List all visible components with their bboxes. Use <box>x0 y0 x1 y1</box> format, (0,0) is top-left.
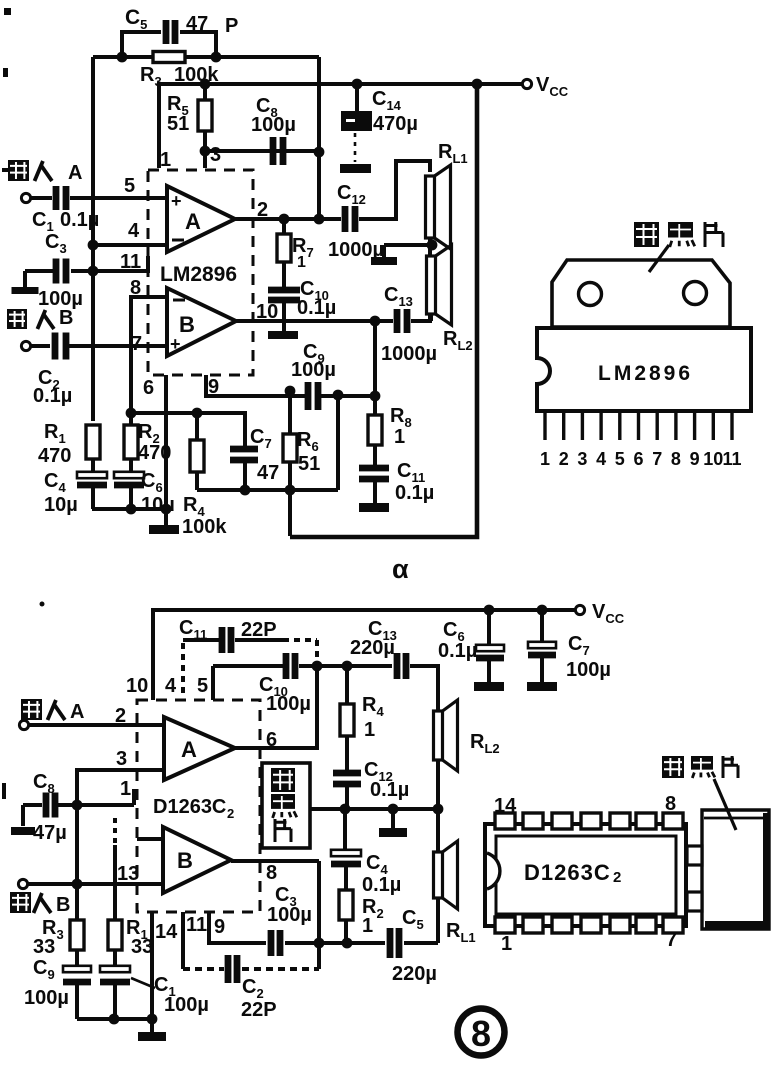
svg-text:8: 8 <box>471 1013 491 1054</box>
svg-text:A: A <box>68 162 82 184</box>
svg-text:P: P <box>225 15 238 37</box>
svg-text:51: 51 <box>298 453 320 475</box>
svg-text:3: 3 <box>577 449 587 469</box>
svg-text:5: 5 <box>124 175 135 197</box>
svg-text:47: 47 <box>257 462 279 484</box>
svg-text:7: 7 <box>652 449 662 469</box>
svg-text:100µ: 100µ <box>24 987 69 1009</box>
svg-text:α: α <box>392 554 409 584</box>
svg-text:4: 4 <box>596 449 606 469</box>
svg-text:11: 11 <box>722 449 741 469</box>
svg-text:4: 4 <box>165 675 177 697</box>
svg-text:1: 1 <box>362 915 373 937</box>
svg-text:LM2896: LM2896 <box>598 362 693 385</box>
svg-text:1000µ: 1000µ <box>381 343 437 365</box>
svg-text:2: 2 <box>559 449 569 469</box>
svg-text:47: 47 <box>186 13 208 35</box>
svg-text:100µ: 100µ <box>291 359 336 381</box>
svg-text:LM2896: LM2896 <box>160 263 237 286</box>
svg-text:10: 10 <box>703 449 723 469</box>
svg-text:B: B <box>177 848 193 873</box>
svg-text:14: 14 <box>155 921 178 943</box>
svg-text:D1263C: D1263C <box>524 860 611 885</box>
svg-text:22P: 22P <box>241 999 277 1021</box>
svg-text:100µ: 100µ <box>267 904 312 926</box>
svg-text:0.1µ: 0.1µ <box>370 779 409 801</box>
svg-text:0.1µ: 0.1µ <box>362 874 401 896</box>
svg-text:A: A <box>181 737 197 762</box>
svg-text:+: + <box>170 334 181 354</box>
svg-text:470µ: 470µ <box>373 113 418 135</box>
svg-text:7: 7 <box>666 929 677 951</box>
svg-text:3: 3 <box>116 748 127 770</box>
svg-text:220µ: 220µ <box>350 637 395 659</box>
svg-text:2: 2 <box>115 705 126 727</box>
svg-text:9: 9 <box>214 916 225 938</box>
svg-text:A: A <box>185 209 201 234</box>
svg-text:5: 5 <box>615 449 625 469</box>
svg-text:1: 1 <box>364 719 375 741</box>
svg-text:6: 6 <box>143 377 154 399</box>
svg-text:33: 33 <box>131 936 153 958</box>
svg-text:33: 33 <box>33 936 55 958</box>
svg-text:11: 11 <box>186 914 207 936</box>
svg-text:22P: 22P <box>241 619 277 641</box>
svg-text:1: 1 <box>540 449 550 469</box>
svg-text:B: B <box>179 312 195 337</box>
svg-text:8: 8 <box>665 793 676 815</box>
svg-text:1: 1 <box>501 933 512 955</box>
svg-text:100µ: 100µ <box>566 659 611 681</box>
svg-text:1: 1 <box>120 778 131 800</box>
svg-text:0.1µ: 0.1µ <box>297 297 336 319</box>
svg-text:1: 1 <box>297 254 306 271</box>
svg-text:+: + <box>171 191 182 211</box>
svg-text:11: 11 <box>120 251 141 273</box>
svg-text:2: 2 <box>613 869 621 886</box>
svg-text:7: 7 <box>131 333 142 355</box>
svg-text:8: 8 <box>130 277 141 299</box>
svg-text:100µ: 100µ <box>251 114 296 136</box>
svg-text:1: 1 <box>394 426 405 448</box>
svg-text:B: B <box>59 307 73 329</box>
svg-text:100µ: 100µ <box>266 693 311 715</box>
svg-text:0.1µ: 0.1µ <box>395 482 434 504</box>
svg-text:47µ: 47µ <box>33 822 67 844</box>
svg-text:5: 5 <box>197 675 208 697</box>
svg-text:6: 6 <box>633 449 643 469</box>
svg-text:0.1µ: 0.1µ <box>33 385 72 407</box>
svg-text:9: 9 <box>690 449 700 469</box>
svg-text:A: A <box>70 701 84 723</box>
svg-text:14: 14 <box>494 795 517 817</box>
svg-text:2: 2 <box>227 806 234 821</box>
svg-text:D1263C: D1263C <box>153 796 226 818</box>
svg-text:3: 3 <box>210 144 221 166</box>
svg-text:51: 51 <box>167 113 189 135</box>
svg-text:8: 8 <box>671 449 681 469</box>
svg-text:10: 10 <box>256 301 278 323</box>
svg-text:0.1µ: 0.1µ <box>438 640 477 662</box>
svg-text:6: 6 <box>266 729 277 751</box>
svg-text:B: B <box>56 894 70 916</box>
svg-text:220µ: 220µ <box>392 963 437 985</box>
svg-text:4: 4 <box>128 220 140 242</box>
svg-text:9: 9 <box>208 376 219 398</box>
svg-text:2: 2 <box>257 199 268 221</box>
svg-text:10µ: 10µ <box>44 494 78 516</box>
svg-text:10: 10 <box>126 675 148 697</box>
svg-text:100k: 100k <box>182 516 227 538</box>
svg-text:1: 1 <box>160 149 171 171</box>
svg-text:8: 8 <box>266 862 277 884</box>
svg-text:470: 470 <box>38 445 71 467</box>
svg-text:100µ: 100µ <box>164 994 209 1016</box>
